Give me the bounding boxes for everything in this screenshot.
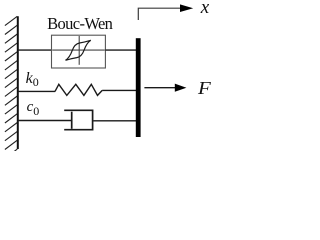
displacement arrowhead [180,4,193,12]
wire damper to bar [93,120,136,122]
force arrow F line [144,87,176,89]
spring k0 [55,84,102,95]
hysteresis horizontal axis [52,49,105,51]
label k0 [26,70,39,88]
wire spring to bar [102,89,136,91]
force arrowhead [175,84,187,92]
label Bouc-Wen [47,14,112,34]
damper piston plate [71,112,73,129]
wire wall to spring [18,90,55,92]
damper cylinder c0 [64,110,92,129]
wall line [17,16,19,149]
wire wall to damper piston [18,120,72,122]
label c0 [27,99,40,116]
label F [198,78,211,99]
rigid bar [136,38,141,137]
wire box to bar [105,49,136,51]
hysteresis vertical axis [78,36,80,65]
wall hatching [5,16,17,158]
Bouc-Wen box U1 [52,35,106,68]
displacement arrow x (elbow) [138,8,181,20]
label x [201,0,209,19]
wire wall to Bouc-Wen box [18,49,52,51]
hysteresis loop [66,40,91,60]
